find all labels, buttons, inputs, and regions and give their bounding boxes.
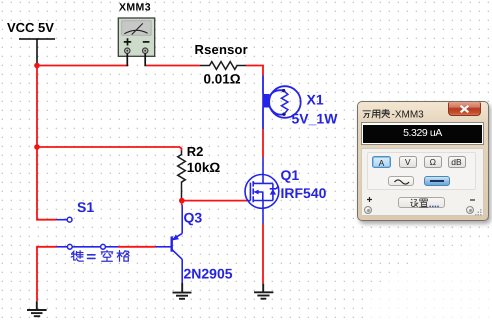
power VCC 5V symbol: [19, 39, 55, 64]
wire meter lead left: [126, 53, 128, 66]
wire rsensor to lamp corner: [246, 66, 263, 76]
万: [363, 111, 371, 118]
button sine: [388, 176, 414, 186]
wire rail down to switch: [37, 147, 57, 220]
watermark fade bottom right: [354, 222, 492, 322]
plus terminal mark: [366, 196, 373, 203]
transistor Q3 2N2905: [156, 206, 183, 284]
svg-text:R2: R2: [187, 144, 204, 159]
wire switch to Q3 base: [118, 246, 156, 248]
键: [71, 251, 83, 261]
wire rail top to R2 branch: [36, 66, 38, 148]
=: [88, 255, 96, 259]
空: [101, 251, 112, 262]
instrument panel window XMM3: [357, 101, 489, 221]
terminal jack minus: [466, 206, 474, 214]
svg-text:2N2905: 2N2905: [184, 266, 233, 282]
wire top bus left of meter: [37, 65, 127, 67]
svg-text:10kΩ: 10kΩ: [187, 160, 221, 175]
switch S1 upper contact: [57, 217, 73, 222]
settings button 设置...: [398, 197, 445, 208]
svg-text:IRF540: IRF540: [281, 185, 327, 201]
ground under Q3 collector: [173, 283, 192, 299]
meter display: [361, 122, 484, 145]
button A (selected): [372, 156, 391, 168]
设: [410, 199, 417, 207]
resistor R2: [178, 151, 186, 199]
close button: [448, 102, 481, 116]
用: [372, 110, 380, 118]
key label: 键 = 空格 (hand-drawn glyphs): [71, 251, 129, 262]
button dB: [448, 156, 466, 168]
transistor Q1 IRF540 MOSFET: [245, 158, 279, 209]
button DC (selected): [424, 176, 450, 186]
node junction R2 branch: [34, 144, 40, 150]
wire gate from R2 node: [182, 200, 247, 202]
wire lamp to Q1 drain: [262, 129, 264, 158]
node junction on VCC rail top: [34, 63, 40, 69]
wire Q1 source down: [262, 208, 264, 224]
格: [117, 251, 129, 262]
置: [419, 199, 428, 207]
button V: [399, 156, 418, 168]
terminal jack plus: [364, 206, 372, 214]
svg-text:X1: X1: [307, 92, 324, 108]
wire R2 feeder: [37, 147, 182, 151]
resize grip: [474, 208, 484, 218]
minus terminal mark: [469, 198, 476, 202]
svg-text:VCC 5V: VCC 5V: [7, 20, 54, 35]
ground under Q1 source: [254, 284, 273, 299]
node junction gate/R2/Q3: [179, 198, 185, 204]
svg-text:XMM3: XMM3: [119, 2, 151, 14]
svg-text:Q3: Q3: [184, 210, 203, 226]
表: [381, 109, 390, 118]
switch S1 lower contacts and lever: [57, 244, 119, 249]
wire lower rail to switch: [37, 247, 57, 301]
wire top bus right of meter: [146, 65, 200, 67]
control panel: [361, 148, 484, 216]
button Ohm: [424, 156, 443, 168]
svg-text:5V_1W: 5V_1W: [292, 111, 339, 127]
svg-text:Rsensor: Rsensor: [195, 42, 248, 57]
wire meter lead right: [144, 53, 146, 66]
resistor Rsensor: [200, 62, 246, 70]
multimeter XMM3 icon: [118, 18, 154, 56]
ground under left rail: [27, 301, 47, 316]
title bar text 万用表-XMM3: [362, 107, 432, 121]
svg-text:Q1: Q1: [281, 167, 300, 183]
svg-text:0.01Ω: 0.01Ω: [204, 72, 241, 87]
groupbox: [367, 152, 476, 190]
wire junction down to Q3 emitter: [181, 201, 183, 206]
svg-text:S1: S1: [77, 199, 94, 215]
lamp X1: [262, 76, 301, 130]
svg-text:-XMM3: -XMM3: [392, 109, 425, 120]
